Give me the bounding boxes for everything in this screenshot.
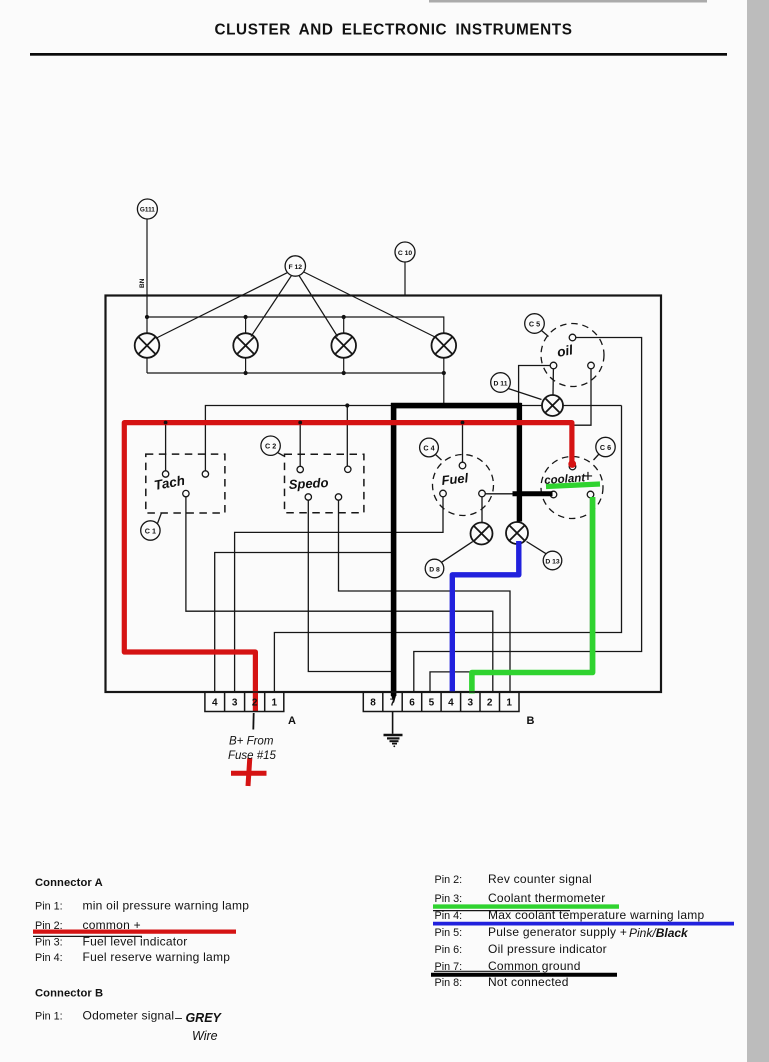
wire F12 to lamp 2	[251, 276, 292, 337]
handwritten B+ From Fuse note	[252, 713, 254, 730]
svg-text:Odometer signal: Odometer signal	[83, 1009, 175, 1023]
svg-text:Connector B: Connector B	[35, 987, 103, 999]
svg-text:C 5: C 5	[529, 319, 540, 328]
svg-text:1: 1	[272, 698, 278, 709]
wire tach left terminal up to common+	[165, 422, 167, 471]
wire spedo bottom-left terminal to ground column	[308, 500, 393, 671]
fuse F12	[285, 256, 305, 276]
wire oil top to pin B6	[414, 338, 642, 693]
connector A pin numbers	[212, 698, 277, 709]
svg-text:8: 8	[370, 698, 376, 709]
printed underline pin7	[434, 970, 540, 972]
svg-text:Spedo: Spedo	[288, 475, 329, 492]
svg-text:3: 3	[232, 698, 238, 709]
svg-text:6: 6	[409, 698, 415, 709]
svg-text:Connector A: Connector A	[35, 877, 103, 889]
svg-text:2: 2	[487, 698, 493, 709]
fuel gauge terminals	[440, 462, 486, 497]
wire fuel top terminal up to common+	[462, 422, 464, 463]
svg-text:Pin 2:: Pin 2:	[435, 874, 463, 886]
black marker horizontal to coolant left	[513, 491, 553, 496]
lamp D8	[471, 523, 493, 545]
svg-text:Not connected: Not connected	[488, 975, 569, 989]
tach terminals	[162, 471, 208, 497]
red marker cross	[231, 758, 267, 786]
printed underline pin2	[33, 935, 142, 937]
wire lamp4 bottom to ground bar	[443, 373, 445, 404]
svg-text:Pin 1:: Pin 1:	[35, 901, 63, 913]
svg-text:A: A	[288, 715, 296, 727]
svg-text:C 10: C 10	[398, 250, 413, 257]
svg-text:C 4: C 4	[423, 443, 434, 452]
svg-text:Oil pressure indicator: Oil pressure indicator	[488, 942, 607, 956]
lamp bus top wire	[147, 317, 444, 333]
wire pin A4 to ground column	[215, 553, 394, 693]
wire F12 to lamp 3	[299, 276, 338, 337]
svg-text:Rev counter signal: Rev counter signal	[488, 872, 592, 886]
wire C10 down to box	[404, 262, 406, 296]
svg-text:Fuel: Fuel	[441, 470, 470, 488]
connector A shell	[205, 692, 284, 712]
svg-text:Fuel reserve warning lamp: Fuel reserve warning lamp	[83, 950, 231, 964]
lamp 3	[331, 333, 356, 358]
svg-text:BN: BN	[139, 278, 146, 288]
svg-text:Pin 8:: Pin 8:	[435, 977, 463, 989]
svg-text:B+ From: B+ From	[229, 736, 274, 748]
black marker ground highlight vertical B7	[391, 403, 397, 696]
svg-text:G111: G111	[140, 207, 155, 214]
svg-text:Pin 3:: Pin 3:	[435, 893, 463, 905]
wire F12 to lamp 4	[304, 272, 436, 338]
green marker coolant underline	[546, 484, 600, 487]
red marker blob at coolant plus	[568, 460, 576, 468]
svg-text:Fuse #15: Fuse #15	[228, 750, 277, 762]
svg-text:D 8: D 8	[429, 566, 440, 573]
lamp bus bottom wire	[147, 372, 444, 374]
blue marker underline pin4	[433, 922, 734, 926]
lamp 1	[135, 333, 160, 358]
label C1	[141, 513, 162, 540]
svg-text:Pin 6:: Pin 6:	[435, 944, 463, 956]
fuel gauge dashed circle	[433, 455, 494, 516]
svg-text:Coolant thermometer: Coolant thermometer	[488, 891, 605, 905]
spedo dashed box	[285, 454, 364, 513]
label D8	[425, 542, 473, 578]
scan grey strip top	[429, 0, 707, 3]
cluster box outline	[106, 296, 662, 693]
svg-text:3: 3	[468, 698, 474, 709]
svg-text:CLUSTER AND ELECTRONIC INSTRUM: CLUSTER AND ELECTRONIC INSTRUMENTS	[214, 22, 572, 39]
svg-text:– GREY: – GREY	[174, 1011, 223, 1025]
wire oil bottom-left to lamp D11	[552, 369, 554, 395]
svg-text:Pin 4:: Pin 4:	[435, 910, 463, 922]
wire pin A1 to lamp D11	[274, 406, 621, 693]
node lamp bus top junctions	[145, 315, 346, 319]
svg-text:+: +	[583, 467, 593, 486]
svg-text:F 12: F 12	[288, 264, 302, 271]
svg-text:Pin 3:: Pin 3:	[35, 936, 63, 948]
wire lamp D11 left stub	[521, 405, 542, 407]
svg-text:Wire: Wire	[192, 1029, 218, 1043]
label C6	[594, 437, 616, 460]
connector B shell	[363, 692, 519, 712]
wire spedo bottom-right terminal to pin B1	[339, 500, 511, 692]
svg-text:5: 5	[429, 698, 435, 709]
node lamp bus bottom junctions	[244, 371, 446, 375]
wire tach bottom terminal to pin B2	[186, 497, 493, 692]
label C4	[420, 438, 442, 460]
connector B pin numbers	[370, 698, 512, 709]
coolant gauge dashed circle	[541, 457, 603, 519]
svg-text:1: 1	[506, 698, 512, 709]
lamp 2	[233, 333, 258, 358]
node junction dots on common+ rail	[164, 421, 465, 425]
svg-text:Fuel level indicator: Fuel level indicator	[83, 934, 188, 948]
lamp D13	[506, 522, 528, 544]
svg-text:oil: oil	[556, 342, 574, 360]
lamp D11	[542, 395, 563, 416]
svg-text:4: 4	[212, 698, 218, 709]
wire oil bottom-left to ground bar	[519, 366, 551, 404]
wire fuel bottom-right to lamp D8	[481, 497, 483, 523]
wire spedo top-left terminal up to common+	[299, 422, 301, 467]
node junction on ground rail	[345, 403, 349, 407]
wire coolant right to pin B5	[430, 498, 591, 692]
wire pin A3 to fuel bottom-left	[235, 497, 443, 692]
label D11	[491, 373, 542, 400]
svg-text:Pink/Black: Pink/Black	[629, 926, 689, 940]
label C5	[525, 314, 549, 337]
svg-text:Pin 4:: Pin 4:	[35, 952, 63, 964]
label C2	[261, 436, 284, 456]
svg-text:Pulse generator supply +: Pulse generator supply +	[488, 925, 627, 939]
svg-text:B: B	[527, 715, 535, 727]
black marker ground highlight horizontal bar	[391, 403, 522, 409]
red marker underline pin2	[33, 929, 236, 933]
blue marker lamp D13 to pin B4	[452, 541, 519, 692]
oil gauge terminals	[550, 334, 594, 369]
svg-text:2: 2	[252, 698, 258, 709]
spedo terminals	[297, 466, 351, 500]
svg-text:D 13: D 13	[545, 558, 560, 565]
ground symbol below pin B7	[384, 712, 403, 744]
svg-text:Pin 5:: Pin 5:	[435, 927, 463, 939]
wire lamp stubs	[147, 317, 444, 373]
svg-text:C 1: C 1	[145, 526, 156, 535]
coolant gauge terminals	[550, 463, 594, 498]
wire oil bottom-right to coolant plus feed	[574, 369, 591, 425]
label D13	[527, 542, 562, 570]
wire spedo top-right terminal to ground rail	[346, 406, 348, 467]
black marker vertical to lamp D13	[517, 403, 522, 522]
printed underline pin3	[433, 910, 570, 912]
tach dashed box	[146, 454, 225, 513]
connector G111	[137, 199, 157, 219]
black marker underline pin7	[431, 973, 617, 977]
wire F12 to lamp 1	[157, 273, 288, 338]
svg-text:Max coolant temperature warnin: Max coolant temperature warning lamp	[488, 908, 705, 922]
svg-text:D 11: D 11	[494, 380, 508, 387]
connector C10	[395, 242, 415, 262]
svg-text:7: 7	[390, 698, 396, 709]
svg-text:Pin 1:: Pin 1:	[35, 1011, 63, 1023]
green marker coolant right to pin B3	[472, 497, 593, 694]
svg-text:C 6: C 6	[600, 443, 611, 452]
wire fuel bottom-right to coolant left	[485, 493, 550, 495]
wire G111 down to lamp bus	[146, 219, 148, 317]
red marker common+ path	[124, 423, 572, 711]
svg-text:4: 4	[448, 698, 454, 709]
green marker underline pin3	[433, 904, 619, 908]
svg-text:min oil pressure warning lamp: min oil pressure warning lamp	[83, 899, 250, 913]
svg-text:C 2: C 2	[265, 442, 276, 451]
wire lamp D11 right to A1 riser	[563, 405, 622, 407]
lamp 4	[432, 333, 457, 358]
wire tach right terminal to ground rail	[205, 406, 393, 471]
scan grey band right	[747, 0, 769, 1062]
oil gauge dashed circle	[541, 324, 604, 387]
title rule	[30, 53, 727, 56]
